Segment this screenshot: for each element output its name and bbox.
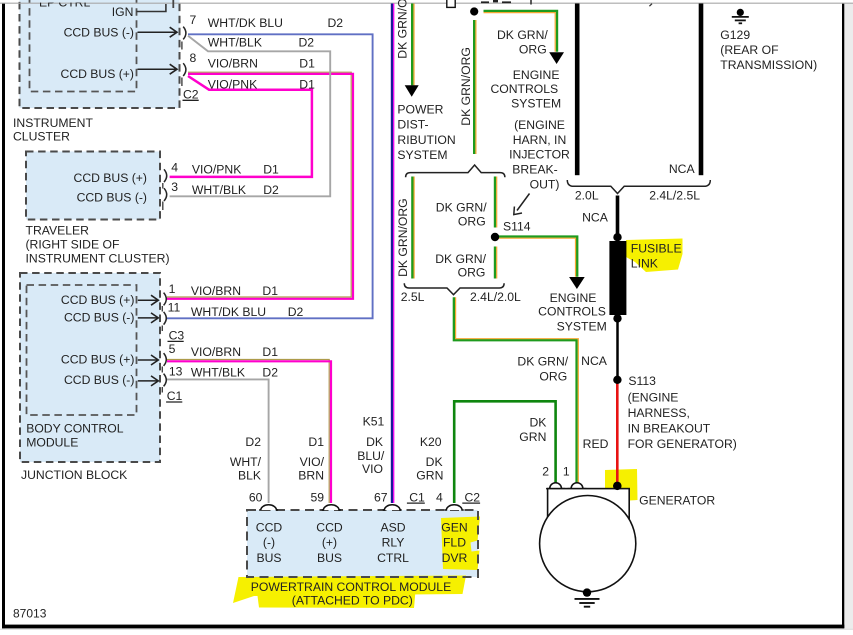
svg-text:TRANSMISSION): TRANSMISSION) xyxy=(720,58,817,72)
svg-text:FUSIBLE: FUSIBLE xyxy=(631,241,682,255)
svg-text:DK: DK xyxy=(529,416,546,430)
svg-text:8: 8 xyxy=(190,51,197,65)
svg-text:1: 1 xyxy=(563,464,570,478)
svg-text:ORG: ORG xyxy=(539,369,567,383)
svg-text:RED: RED xyxy=(583,437,609,451)
svg-text:CCD BUS (+): CCD BUS (+) xyxy=(61,293,134,307)
svg-text:D2: D2 xyxy=(245,435,261,449)
svg-text:87013: 87013 xyxy=(13,606,47,620)
svg-text:CCD: CCD xyxy=(256,520,283,534)
svg-text:C2: C2 xyxy=(183,88,199,102)
svg-text:CLUSTER: CLUSTER xyxy=(13,130,70,144)
svg-text:K20: K20 xyxy=(420,435,442,449)
svg-text:C1: C1 xyxy=(167,389,183,403)
svg-text:VIO/BRN: VIO/BRN xyxy=(191,284,241,298)
svg-text:CCD BUS (+): CCD BUS (+) xyxy=(61,67,134,81)
svg-text:2.5L: 2.5L xyxy=(401,290,425,304)
svg-text:SYSTEM: SYSTEM xyxy=(511,96,561,110)
svg-text:1: 1 xyxy=(169,282,176,296)
svg-text:CCD BUS (-): CCD BUS (-) xyxy=(64,373,134,387)
svg-text:POWER: POWER xyxy=(397,103,443,117)
svg-text:DK GRN/ORG: DK GRN/ORG xyxy=(459,47,473,126)
svg-text:S114: S114 xyxy=(503,220,531,234)
svg-text:POWERTRAIN CONTROL MODULE: POWERTRAIN CONTROL MODULE xyxy=(251,580,451,594)
svg-text:GRN: GRN xyxy=(416,469,443,483)
svg-text:WHT/DK BLU: WHT/DK BLU xyxy=(208,16,283,30)
svg-text:JUNCTION BLOCK: JUNCTION BLOCK xyxy=(21,468,127,482)
svg-text:CCD BUS (+): CCD BUS (+) xyxy=(74,171,147,185)
svg-text:2.0L: 2.0L xyxy=(575,189,599,203)
svg-text:DK: DK xyxy=(426,455,443,469)
svg-text:VIO/PNK: VIO/PNK xyxy=(192,162,241,176)
svg-text:CONTROLS: CONTROLS xyxy=(538,305,606,319)
svg-text:VIO/: VIO/ xyxy=(300,455,325,469)
svg-text:WHT/BLK: WHT/BLK xyxy=(192,183,246,197)
svg-text:GEN: GEN xyxy=(441,520,467,534)
svg-text:INJECTOR: INJECTOR xyxy=(509,148,570,162)
svg-text:DK GRN/: DK GRN/ xyxy=(517,354,568,368)
svg-text:(ENGINE: (ENGINE xyxy=(514,118,565,132)
svg-text:5: 5 xyxy=(169,342,176,356)
svg-text:MODULE: MODULE xyxy=(26,435,78,449)
svg-text:CONTROLS: CONTROLS xyxy=(490,82,558,96)
svg-text:S113: S113 xyxy=(628,374,656,388)
svg-text:BODY CONTROL: BODY CONTROL xyxy=(26,422,124,436)
svg-text:4: 4 xyxy=(171,161,178,175)
svg-text:60: 60 xyxy=(249,490,263,504)
svg-text:WHT/BLK: WHT/BLK xyxy=(208,36,262,50)
svg-text:(+): (+) xyxy=(322,536,337,550)
svg-text:OUT): OUT) xyxy=(530,178,560,192)
svg-text:DK GRN/: DK GRN/ xyxy=(497,28,548,42)
svg-text:DIST-: DIST- xyxy=(397,118,428,132)
svg-text:VIO/BRN: VIO/BRN xyxy=(191,345,241,359)
svg-text:SYSTEM: SYSTEM xyxy=(557,319,607,333)
svg-text:11: 11 xyxy=(168,301,181,315)
svg-text:D2: D2 xyxy=(262,366,278,380)
svg-text:CTRL: CTRL xyxy=(377,551,409,565)
svg-text:NCA: NCA xyxy=(581,354,608,368)
svg-text:(REAR OF: (REAR OF xyxy=(720,43,778,57)
svg-text:LINK: LINK xyxy=(631,256,658,270)
svg-text:BREAK-: BREAK- xyxy=(512,163,557,177)
svg-text:CCD BUS (-): CCD BUS (-) xyxy=(77,191,147,205)
svg-text:VIO/PNK: VIO/PNK xyxy=(208,78,257,92)
svg-text:3: 3 xyxy=(171,180,178,194)
svg-text:VIO/BRN: VIO/BRN xyxy=(208,57,258,71)
svg-text:DK GRN/: DK GRN/ xyxy=(436,200,487,214)
svg-text:ENGINE: ENGINE xyxy=(513,68,560,82)
svg-text:BUS: BUS xyxy=(256,551,281,565)
svg-text:(-): (-) xyxy=(263,536,275,550)
svg-text:BRN: BRN xyxy=(298,469,324,483)
svg-text:D2: D2 xyxy=(328,16,344,30)
svg-text:C3: C3 xyxy=(169,329,185,343)
svg-text:C1: C1 xyxy=(409,490,425,504)
svg-text:2.4L/2.5L: 2.4L/2.5L xyxy=(649,189,700,203)
svg-text:ORG: ORG xyxy=(458,265,486,279)
svg-text:D1: D1 xyxy=(263,162,279,176)
svg-text:4: 4 xyxy=(436,490,443,504)
svg-text:IN BREAKOUT: IN BREAKOUT xyxy=(628,421,711,435)
svg-text:GENERATOR: GENERATOR xyxy=(639,494,715,508)
svg-text:(ATTACHED TO PDC): (ATTACHED TO PDC) xyxy=(292,593,413,607)
svg-text:D2: D2 xyxy=(263,183,279,197)
svg-text:WHT/BLK: WHT/BLK xyxy=(191,366,245,380)
svg-text:ASD: ASD xyxy=(380,520,405,534)
svg-text:NCA: NCA xyxy=(582,210,609,224)
svg-text:DK GRN/ORG: DK GRN/ORG xyxy=(396,0,410,59)
svg-text:SYSTEM: SYSTEM xyxy=(397,148,447,162)
svg-text:WHT/DK BLU: WHT/DK BLU xyxy=(191,305,266,319)
svg-text:BLK: BLK xyxy=(238,469,261,483)
svg-text:D1: D1 xyxy=(308,435,324,449)
svg-text:K51: K51 xyxy=(363,415,385,429)
svg-text:INSTRUMENT CLUSTER): INSTRUMENT CLUSTER) xyxy=(26,252,170,266)
svg-text:RLY: RLY xyxy=(382,536,405,550)
svg-text:59: 59 xyxy=(311,490,325,504)
svg-text:ORG: ORG xyxy=(519,43,547,57)
svg-text:DK GRN/ORG: DK GRN/ORG xyxy=(396,198,410,277)
svg-text:RIBUTION: RIBUTION xyxy=(397,133,455,147)
svg-text:C2: C2 xyxy=(465,490,481,504)
svg-text:CCD: CCD xyxy=(316,520,343,534)
svg-text:D1: D1 xyxy=(262,345,278,359)
svg-text:DK: DK xyxy=(366,435,383,449)
svg-text:D2: D2 xyxy=(288,305,304,319)
svg-text:DVR: DVR xyxy=(442,551,468,565)
svg-text:HARN, IN: HARN, IN xyxy=(513,133,567,147)
svg-text:CCD BUS (-): CCD BUS (-) xyxy=(64,26,134,40)
svg-text:HARNESS,: HARNESS, xyxy=(628,406,690,420)
svg-text:D1: D1 xyxy=(299,57,315,71)
svg-text:2: 2 xyxy=(542,464,549,478)
svg-text:VIO: VIO xyxy=(362,462,383,476)
svg-text:CCD BUS (+): CCD BUS (+) xyxy=(61,352,134,366)
svg-text:ORG: ORG xyxy=(458,214,486,228)
svg-text:FLD: FLD xyxy=(443,536,466,550)
svg-text:ENGINE: ENGINE xyxy=(550,291,597,305)
svg-text:BUS: BUS xyxy=(317,551,342,565)
svg-text:TRAVELER: TRAVELER xyxy=(26,224,90,238)
svg-text:GRN: GRN xyxy=(519,430,546,444)
svg-text:7: 7 xyxy=(190,13,197,27)
svg-text:INSTRUMENT: INSTRUMENT xyxy=(13,116,93,130)
svg-text:NCA: NCA xyxy=(669,162,696,176)
svg-text:D1: D1 xyxy=(299,78,315,92)
svg-text:CCD BUS (-): CCD BUS (-) xyxy=(64,310,134,324)
svg-text:67: 67 xyxy=(374,490,388,504)
svg-text:IGN: IGN xyxy=(112,5,134,19)
svg-text:WHT/: WHT/ xyxy=(230,455,262,469)
svg-text:BLU/: BLU/ xyxy=(357,449,385,463)
svg-text:D2: D2 xyxy=(299,36,315,50)
svg-text:G129: G129 xyxy=(720,28,750,42)
svg-text:2.4L/2.0L: 2.4L/2.0L xyxy=(470,290,521,304)
svg-text:DK GRN/: DK GRN/ xyxy=(435,252,486,266)
svg-text:FOR GENERATOR): FOR GENERATOR) xyxy=(628,437,737,451)
svg-text:13: 13 xyxy=(169,365,183,379)
svg-text:(ENGINE: (ENGINE xyxy=(628,390,679,404)
svg-text:D1: D1 xyxy=(262,284,278,298)
svg-text:(RIGHT SIDE OF: (RIGHT SIDE OF xyxy=(26,238,120,252)
